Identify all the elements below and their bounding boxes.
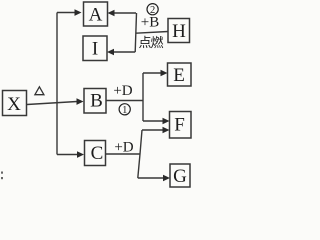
wire right-top vertical (135, 13, 136, 52)
label triangle delta (35, 87, 44, 95)
label circled 1 (119, 104, 130, 116)
wire right-mid vertical (142, 73, 144, 121)
wire C to right vertical (106, 153, 141, 155)
svg-text:+D: +D (114, 140, 133, 156)
box E (168, 63, 192, 86)
label circled 2 (147, 4, 158, 17)
arrow into G (138, 175, 170, 181)
svg-text:+B: +B (141, 15, 159, 31)
wire branch to A (57, 9, 82, 16)
box X (3, 91, 27, 116)
svg-text:H: H (172, 21, 186, 42)
box G (170, 164, 190, 187)
arrow into F lower (142, 127, 170, 133)
box I (83, 36, 107, 61)
svg-text:E: E (173, 65, 185, 86)
svg-text:I: I (92, 39, 98, 60)
svg-text:G: G (173, 166, 187, 187)
arrow into A right side (108, 10, 137, 16)
wire H to junction (136, 32, 168, 34)
svg-text:A: A (89, 5, 103, 26)
svg-text:F: F (174, 115, 185, 136)
box C (85, 141, 106, 166)
arrow into F upper (143, 118, 170, 124)
svg-text:C: C (91, 143, 104, 164)
arrow into E (143, 70, 168, 76)
arrow into I right side (107, 49, 135, 55)
noise colon mark bottom left (1, 172, 3, 180)
svg-text:点燃: 点燃 (138, 35, 163, 50)
box F (170, 112, 192, 139)
box A (84, 2, 108, 26)
svg-text:X: X (7, 94, 21, 115)
svg-text:B: B (90, 91, 103, 112)
wire right-bottom vertical (138, 130, 142, 178)
box H (168, 19, 190, 43)
wire left branch vertical (56, 13, 58, 155)
svg-text:1: 1 (122, 105, 127, 116)
wire B to right vertical (106, 100, 143, 102)
wire X to B (27, 98, 84, 105)
wire branch to C (57, 151, 84, 158)
box B (84, 89, 106, 114)
svg-text:+D: +D (113, 83, 132, 99)
